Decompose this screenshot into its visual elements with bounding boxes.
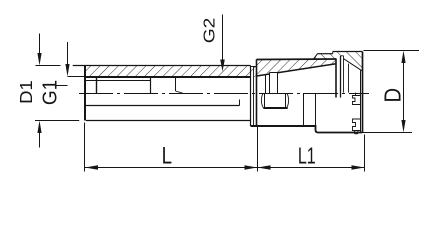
svg-text:D: D: [379, 88, 406, 103]
svg-text:G2: G2: [200, 18, 218, 44]
svg-text:D1: D1: [16, 80, 35, 104]
svg-text:L1: L1: [298, 144, 316, 169]
svg-text:G1: G1: [39, 80, 62, 105]
svg-text:L: L: [162, 143, 172, 170]
